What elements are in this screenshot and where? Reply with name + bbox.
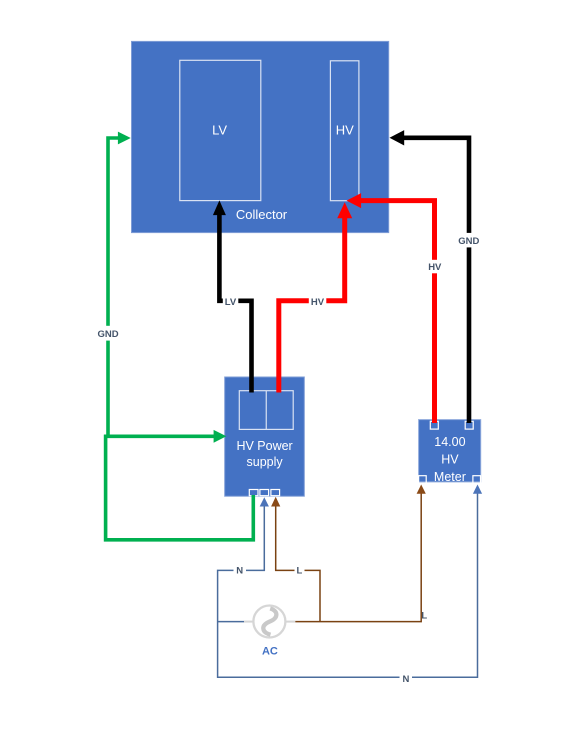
power supply bottom pin 3 xyxy=(271,490,280,496)
HV power supply block xyxy=(225,377,305,496)
label L (upper) xyxy=(295,564,305,576)
svg-text:Collector: Collector xyxy=(236,207,288,222)
svg-text:AC: AC xyxy=(262,645,278,657)
wire brown L: AC to meter xyxy=(295,492,421,622)
AC source stub left xyxy=(244,621,254,623)
meter bottom pin left xyxy=(419,476,427,484)
wire black LV: collector to power supply xyxy=(219,213,251,393)
label GND (green wire) xyxy=(96,326,121,341)
arrowhead black left into collector right xyxy=(390,130,405,145)
label N (lower) xyxy=(400,672,413,684)
wire green GND: junction down to power supply bottom pin xyxy=(106,435,254,540)
power supply bottom pin 1 xyxy=(249,490,258,496)
svg-text:LV: LV xyxy=(225,297,237,308)
label HV (red wire to meter) xyxy=(426,260,444,274)
label LV (black wire) xyxy=(223,295,239,308)
svg-text:GND: GND xyxy=(97,329,118,340)
svg-text:N: N xyxy=(236,566,243,577)
AC source circle xyxy=(253,606,285,638)
svg-text:HV: HV xyxy=(336,123,354,138)
svg-text:HV: HV xyxy=(428,262,442,273)
label HV Power supply xyxy=(236,439,292,469)
wire red HV: power supply to collector xyxy=(279,217,345,393)
arrowhead red up into HV box xyxy=(337,202,352,218)
AC source sine symbol xyxy=(263,608,276,634)
svg-text:HV: HV xyxy=(311,297,325,308)
wire black GND: meter to collector xyxy=(403,138,470,423)
AC source stub right xyxy=(285,621,295,623)
wire blue N: power supply to AC loop to meter xyxy=(218,493,478,677)
svg-text:GND: GND xyxy=(458,236,479,247)
svg-text:N: N xyxy=(402,674,409,685)
arrowhead black up into LV box xyxy=(213,200,226,215)
wire green GND: collector to lower-left run xyxy=(108,138,119,436)
meter top pin left xyxy=(430,421,438,429)
arrowhead brown up into meter bottom left pin xyxy=(417,485,426,494)
power supply terminal pair box xyxy=(239,391,293,430)
label N (upper) xyxy=(234,564,247,576)
HV meter block xyxy=(419,420,481,482)
arrowhead red left into HV box corner xyxy=(347,193,362,208)
arrowhead green into power supply left xyxy=(214,430,227,443)
HV winding box xyxy=(330,61,359,201)
arrowhead blue up into meter bottom right pin xyxy=(473,485,482,494)
svg-text:supply: supply xyxy=(247,455,284,469)
arrowhead brown up into power supply pin 3 xyxy=(271,497,280,507)
label HV (red wire to supply) xyxy=(309,295,327,308)
meter top pin right xyxy=(465,421,473,429)
power supply bottom pin 2 xyxy=(260,490,269,496)
wire blue stub to AC source xyxy=(218,621,244,623)
arrowhead green into collector left xyxy=(118,132,131,145)
svg-text:L: L xyxy=(296,566,302,577)
LV winding box xyxy=(180,60,261,200)
meter bottom pin right xyxy=(473,476,481,484)
wire brown L: power supply to AC xyxy=(276,506,320,622)
svg-text:HV Power: HV Power xyxy=(236,439,292,453)
svg-text:LV: LV xyxy=(212,123,227,138)
svg-text:Meter: Meter xyxy=(434,470,466,484)
collector block xyxy=(132,41,389,232)
wire red HV: meter to collector xyxy=(360,201,435,423)
label 14.00 HV Meter xyxy=(434,435,466,484)
svg-text:L: L xyxy=(421,611,427,622)
wire green branch to power supply xyxy=(104,434,215,438)
svg-text:14.00: 14.00 xyxy=(434,435,465,449)
label GND (black wire) xyxy=(456,233,481,248)
arrowhead blue up into power supply pin 2 xyxy=(260,497,269,506)
svg-text:HV: HV xyxy=(441,452,459,466)
